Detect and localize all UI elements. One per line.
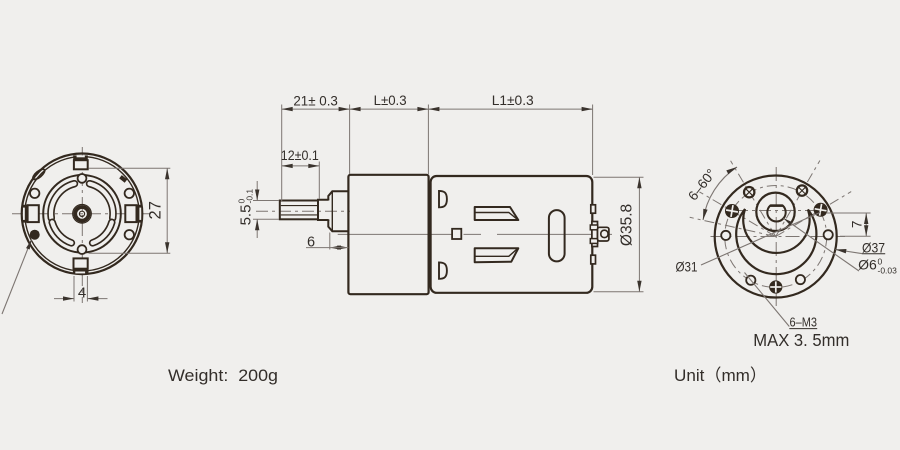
svg-text:Ø6: Ø6 [858, 257, 877, 273]
svg-text:6: 6 [307, 235, 315, 251]
svg-text:5.5: 5.5 [238, 205, 255, 226]
svg-text:Unit（mm）: Unit（mm） [674, 366, 767, 385]
svg-text:7: 7 [850, 221, 865, 229]
svg-text:-0.1: -0.1 [245, 189, 255, 204]
svg-text:Ø31: Ø31 [676, 259, 698, 274]
svg-text:6–M3: 6–M3 [790, 315, 818, 330]
svg-text:Weight: 200g: Weight: 200g [168, 366, 278, 385]
svg-text:L±0.3: L±0.3 [374, 92, 407, 108]
svg-text:12±0.1: 12±0.1 [281, 147, 319, 163]
svg-text:4: 4 [78, 285, 86, 302]
svg-text:MAX 3. 5mm: MAX 3. 5mm [753, 330, 849, 350]
svg-text:L1±0.3: L1±0.3 [492, 92, 534, 108]
svg-text:27: 27 [147, 201, 165, 219]
svg-text:Ø37: Ø37 [862, 239, 885, 255]
svg-text:-0.03: -0.03 [878, 266, 898, 276]
svg-text:21± 0.3: 21± 0.3 [293, 93, 338, 109]
svg-text:Ø35.8: Ø35.8 [619, 204, 636, 246]
